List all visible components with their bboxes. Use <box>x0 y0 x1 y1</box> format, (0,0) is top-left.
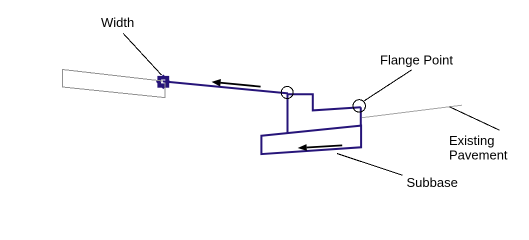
width leader line <box>123 34 161 76</box>
existing pavement surface line (gray) <box>362 105 462 118</box>
wire: vertical from node 1 down to subbase <box>287 94 289 133</box>
node circle 2 (flange point) <box>353 100 365 112</box>
wire: curb step and gutter <box>288 94 361 110</box>
svg-text:Existing: Existing <box>449 133 495 148</box>
existing pavement leader line <box>450 107 500 130</box>
wire: top blue surface line <box>163 81 288 93</box>
direction arrow in subbase <box>298 144 343 151</box>
node circle 1 <box>281 87 293 99</box>
subbase leader line <box>337 154 403 176</box>
svg-text:Width: Width <box>101 15 134 30</box>
width point marker (8-point star) <box>156 74 171 89</box>
svg-text:Pavement: Pavement <box>449 148 508 163</box>
svg-text:Flange Point: Flange Point <box>380 53 453 68</box>
svg-text:Subbase: Subbase <box>407 175 458 190</box>
flange point leader line <box>364 70 411 101</box>
wire: vertical from flange point down to subbase <box>360 107 362 126</box>
existing pavement left section (gray outline) <box>63 70 166 98</box>
subbase outline (blue) <box>261 126 361 155</box>
direction arrow on top line <box>212 79 261 87</box>
